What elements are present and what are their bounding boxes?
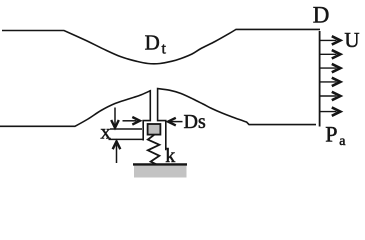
- svg-text:P: P: [325, 122, 337, 147]
- svg-text:D: D: [313, 2, 330, 27]
- svg-text:a: a: [339, 134, 346, 149]
- svg-text:D: D: [145, 30, 160, 54]
- svg-text:t: t: [162, 40, 167, 57]
- svg-text:k: k: [165, 145, 175, 167]
- svg-text:U: U: [344, 28, 359, 52]
- svg-text:Ds: Ds: [184, 111, 206, 133]
- svg-text:x: x: [100, 120, 111, 144]
